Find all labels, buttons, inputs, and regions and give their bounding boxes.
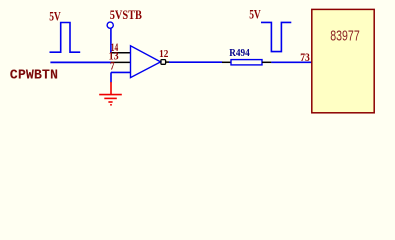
wire 5VSTB to pin 14 [110, 29, 112, 54]
wire pin12 to R494 [169, 61, 222, 63]
pin 13 of U1 [111, 61, 131, 63]
svg-text:CPWBTN: CPWBTN [10, 69, 58, 84]
pin 14 of U1 [111, 52, 131, 54]
svg-text:5V: 5V [49, 9, 61, 24]
IC U2 body [312, 9, 374, 112]
output bubble on pin 12 [161, 60, 166, 65]
pin 12 stub [166, 61, 170, 63]
power port 5V pulse annotation (right, inverted) [261, 22, 291, 51]
svg-text:73: 73 [300, 50, 310, 64]
pin 7 of U1 / wire [111, 71, 131, 73]
svg-text:5V: 5V [249, 6, 261, 21]
resistor R494 [222, 61, 231, 63]
wire CPWBTN to pin 13 [50, 61, 111, 63]
sheet background [0, 0, 395, 162]
svg-text:R494: R494 [229, 48, 250, 59]
svg-text:5VSTB: 5VSTB [110, 7, 142, 22]
inverter U1 triangle [131, 46, 161, 78]
svg-text:83977: 83977 [330, 28, 359, 44]
svg-text:12: 12 [159, 49, 168, 60]
power port 5V pulse annotation (left) [50, 23, 81, 53]
svg-text:7: 7 [110, 58, 115, 72]
wire R494 to U2 pin 73 [271, 61, 312, 63]
wire pin 7 down [110, 72, 112, 82]
ground symbol [99, 82, 122, 105]
power port 5VSTB circle [107, 22, 113, 28]
